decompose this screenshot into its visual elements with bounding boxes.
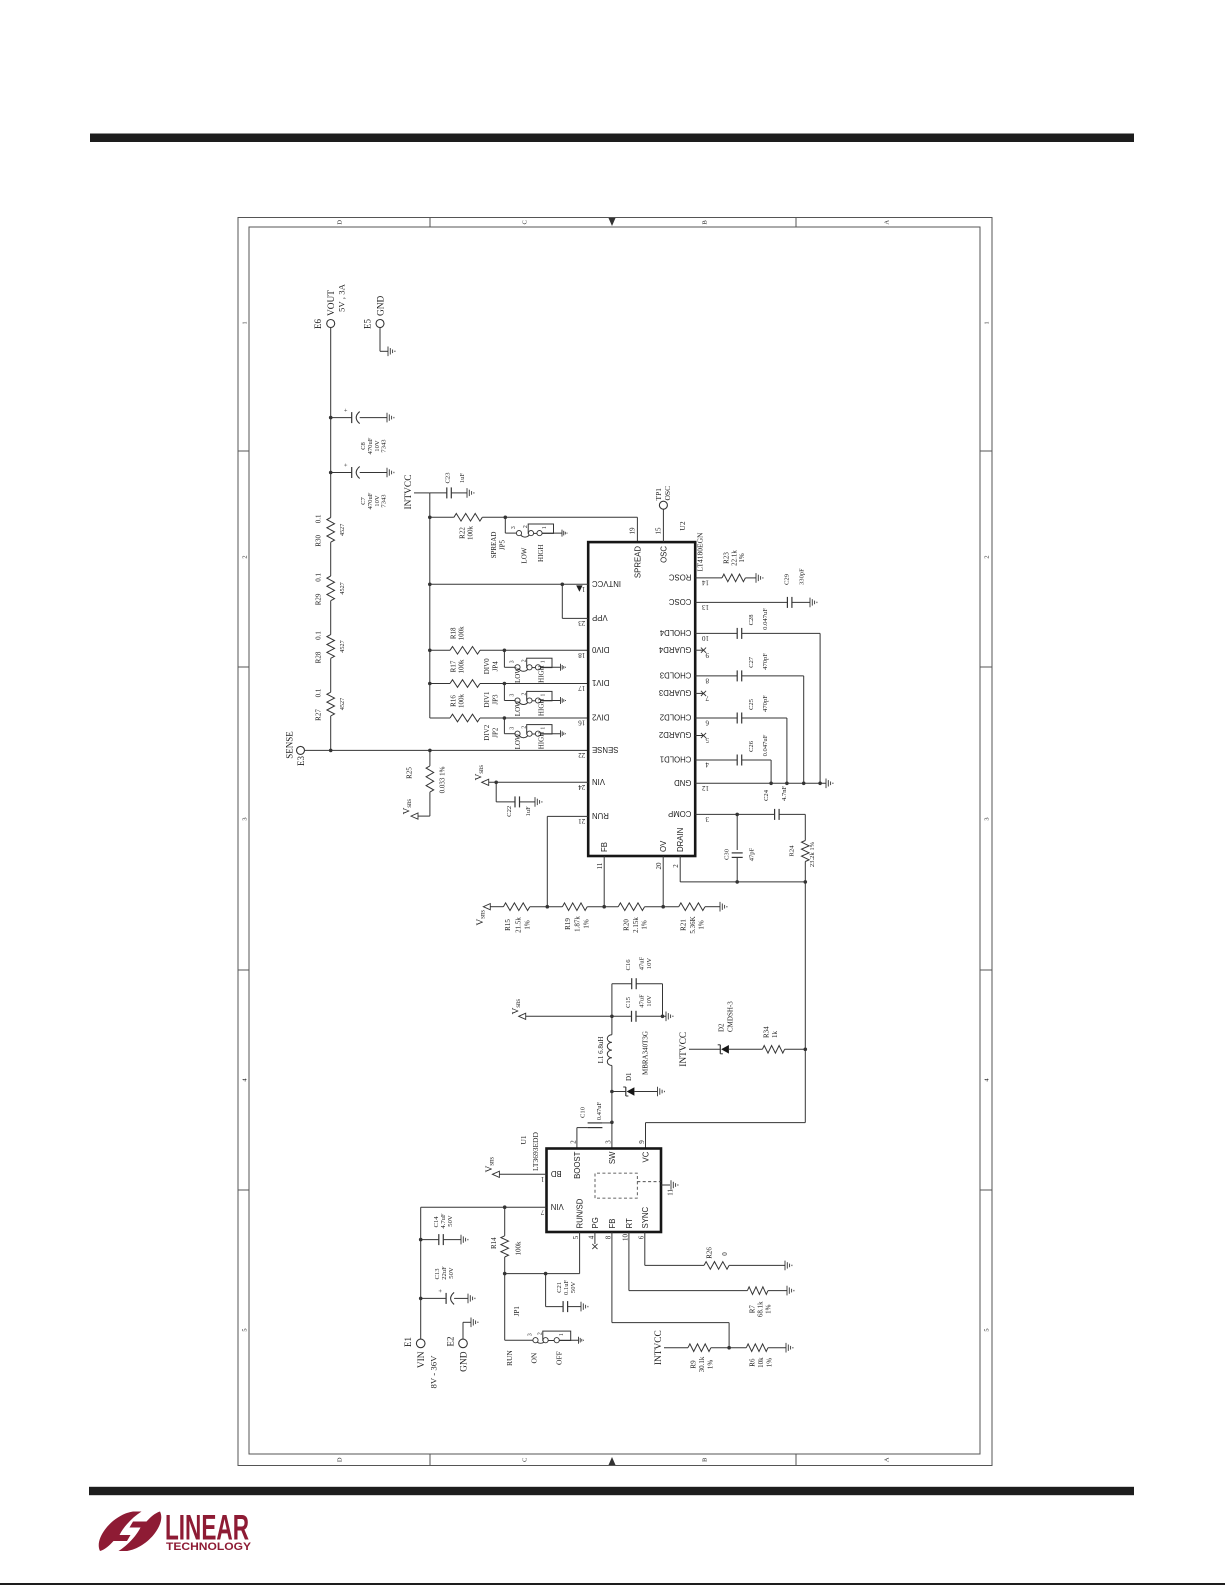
- svg-text:C29: C29: [784, 573, 791, 585]
- svg-text:2: 2: [521, 659, 527, 662]
- svg-text:COMP: COMP: [668, 809, 691, 818]
- svg-text:4.7nF: 4.7nF: [781, 785, 788, 801]
- svg-text:C21: C21: [556, 1282, 563, 1293]
- svg-text:C: C: [522, 1458, 529, 1462]
- svg-text:20: 20: [655, 862, 663, 870]
- svg-text:1: 1: [242, 321, 249, 324]
- svg-text:1: 1: [541, 693, 547, 696]
- svg-text:6: 6: [637, 1235, 645, 1239]
- svg-text:BOOST: BOOST: [573, 1151, 582, 1179]
- svg-text:TP1: TP1: [654, 488, 663, 501]
- svg-text:E3: E3: [296, 756, 306, 766]
- svg-text:BD: BD: [550, 1169, 561, 1178]
- svg-text:C16: C16: [625, 959, 632, 971]
- svg-text:470pF: 470pF: [762, 695, 769, 712]
- svg-text:23: 23: [578, 619, 586, 627]
- svg-text:GUARD4: GUARD4: [658, 645, 691, 654]
- svg-text:2: 2: [242, 555, 249, 558]
- svg-text:6: 6: [705, 719, 709, 727]
- svg-text:7343: 7343: [381, 439, 388, 453]
- svg-text:C30: C30: [724, 848, 731, 860]
- svg-text:B: B: [702, 219, 709, 224]
- svg-text:C7: C7: [360, 496, 367, 504]
- svg-text:0.1: 0.1: [315, 631, 323, 640]
- svg-text:R17: R17: [450, 660, 458, 672]
- svg-text:100k: 100k: [467, 526, 475, 541]
- svg-text:A: A: [884, 1457, 891, 1462]
- svg-text:GUARD3: GUARD3: [659, 688, 692, 697]
- svg-text:5: 5: [572, 1235, 580, 1239]
- svg-text:R14: R14: [490, 1237, 498, 1249]
- svg-text:R23: R23: [723, 552, 731, 564]
- svg-text:C14: C14: [433, 1216, 440, 1228]
- svg-text:RT: RT: [625, 1218, 634, 1228]
- svg-text:2: 2: [523, 525, 529, 528]
- svg-text:R30: R30: [315, 534, 323, 546]
- svg-text:1%: 1%: [697, 920, 705, 930]
- svg-text:100k: 100k: [458, 659, 466, 674]
- svg-text:E5: E5: [362, 319, 372, 329]
- svg-text:3: 3: [705, 815, 709, 823]
- svg-text:R26: R26: [706, 1247, 714, 1259]
- svg-text:5.36K: 5.36K: [689, 916, 697, 933]
- svg-text:0: 0: [721, 1252, 729, 1256]
- svg-text:4: 4: [242, 1078, 249, 1082]
- svg-text:0.1: 0.1: [315, 688, 323, 697]
- svg-text:100k: 100k: [458, 626, 466, 641]
- svg-text:22: 22: [578, 751, 586, 759]
- svg-text:JP3: JP3: [491, 694, 499, 705]
- svg-text:HIGH: HIGH: [537, 544, 545, 562]
- svg-text:R9: R9: [690, 1360, 698, 1369]
- svg-text:47uF: 47uF: [638, 994, 645, 1008]
- svg-text:23.2k 1%: 23.2k 1%: [809, 841, 816, 867]
- svg-text:HIGH: HIGH: [538, 732, 546, 750]
- svg-text:1uF: 1uF: [525, 806, 532, 817]
- svg-text:CHOLD2: CHOLD2: [660, 713, 692, 722]
- svg-text:4527: 4527: [339, 698, 346, 710]
- svg-text:8: 8: [705, 677, 709, 685]
- svg-text:LOW: LOW: [514, 667, 522, 683]
- svg-text:ROSC: ROSC: [669, 573, 692, 582]
- svg-text:R7: R7: [749, 1305, 757, 1314]
- svg-text:2: 2: [537, 1332, 543, 1335]
- svg-text:OSC: OSC: [660, 546, 669, 563]
- svg-text:RUN: RUN: [505, 1350, 514, 1366]
- svg-text:CMDSH-3: CMDSH-3: [727, 1001, 735, 1032]
- svg-text:5: 5: [984, 1328, 991, 1331]
- svg-text:C23: C23: [445, 472, 452, 484]
- svg-text:3: 3: [984, 817, 991, 820]
- svg-text:16: 16: [578, 719, 586, 727]
- svg-text:CHOLD4: CHOLD4: [659, 628, 691, 637]
- svg-text:19: 19: [629, 527, 637, 535]
- svg-text:CHOLD1: CHOLD1: [660, 755, 692, 764]
- svg-text:JP5: JP5: [498, 539, 506, 550]
- svg-text:11: 11: [596, 862, 604, 869]
- svg-text:R15: R15: [504, 919, 512, 931]
- svg-text:SYNC: SYNC: [641, 1206, 650, 1228]
- svg-text:1: 1: [559, 1333, 565, 1336]
- svg-text:Vsns: Vsns: [403, 799, 414, 815]
- svg-text:2: 2: [984, 555, 991, 558]
- svg-text:0.1: 0.1: [315, 514, 323, 523]
- svg-text:L1 6.8uH: L1 6.8uH: [597, 1037, 605, 1064]
- svg-text:50V: 50V: [448, 1267, 455, 1279]
- svg-text:0.033 1%: 0.033 1%: [439, 766, 447, 793]
- svg-text:R34: R34: [763, 1026, 771, 1038]
- svg-text:GND: GND: [377, 295, 387, 316]
- svg-text:12: 12: [702, 784, 710, 792]
- svg-text:D1: D1: [625, 1072, 633, 1081]
- svg-text:C25: C25: [748, 698, 755, 710]
- svg-text:B: B: [702, 1457, 709, 1462]
- svg-text:R6: R6: [749, 1358, 757, 1367]
- svg-text:2: 2: [672, 864, 680, 868]
- svg-text:18: 18: [578, 651, 586, 659]
- svg-text:VPP: VPP: [592, 613, 608, 622]
- svg-text:RUN: RUN: [592, 811, 609, 820]
- svg-text:VIN: VIN: [592, 777, 605, 786]
- svg-text:R21: R21: [680, 919, 688, 931]
- svg-text:INTVCC: INTVCC: [404, 475, 414, 510]
- svg-text:0.47uF: 0.47uF: [596, 1101, 603, 1120]
- svg-text:Vsns: Vsns: [512, 999, 523, 1015]
- svg-text:1: 1: [984, 321, 991, 324]
- svg-text:SPREAD: SPREAD: [634, 546, 643, 578]
- svg-text:1%: 1%: [707, 1360, 715, 1370]
- svg-text:8: 8: [604, 1235, 612, 1239]
- svg-text:U1: U1: [519, 1135, 528, 1144]
- svg-text:ON: ON: [530, 1352, 539, 1363]
- svg-text:1: 1: [542, 526, 548, 529]
- svg-text:1%: 1%: [524, 920, 532, 930]
- svg-text:1%: 1%: [766, 1358, 774, 1368]
- svg-text:5V , 3A: 5V , 3A: [337, 283, 347, 312]
- svg-text:3: 3: [242, 817, 249, 820]
- svg-text:LOW: LOW: [514, 733, 522, 749]
- svg-text:LT4180EGN: LT4180EGN: [696, 532, 705, 571]
- svg-text:D: D: [337, 1457, 344, 1462]
- svg-text:100k: 100k: [515, 1241, 523, 1256]
- svg-text:3: 3: [527, 1333, 533, 1336]
- svg-text:47pF: 47pF: [749, 847, 756, 861]
- svg-text:LOW: LOW: [514, 700, 522, 716]
- svg-text:13: 13: [702, 603, 710, 611]
- svg-text:C10: C10: [580, 1106, 587, 1118]
- svg-text:3: 3: [509, 693, 515, 696]
- svg-text:TECHNOLOGY: TECHNOLOGY: [166, 1541, 252, 1553]
- svg-text:14: 14: [702, 579, 710, 587]
- svg-text:9: 9: [638, 1140, 646, 1144]
- svg-text:GND: GND: [674, 778, 692, 787]
- svg-text:4: 4: [984, 1078, 991, 1082]
- svg-text:R19: R19: [564, 918, 572, 930]
- svg-text:21: 21: [578, 817, 586, 825]
- svg-text:Vsns: Vsns: [485, 1157, 496, 1173]
- svg-text:DIV1: DIV1: [592, 678, 609, 687]
- svg-text:17: 17: [578, 684, 586, 692]
- svg-text:FB: FB: [608, 1219, 617, 1229]
- svg-text:OFF: OFF: [555, 1351, 564, 1365]
- svg-text:Vsns: Vsns: [476, 910, 487, 926]
- svg-text:U2: U2: [678, 521, 687, 530]
- svg-text:10: 10: [621, 1234, 629, 1242]
- svg-text:C8: C8: [360, 441, 367, 449]
- svg-text:OV: OV: [659, 840, 668, 852]
- svg-text:7343: 7343: [381, 494, 388, 508]
- svg-text:INTVCC: INTVCC: [654, 1330, 664, 1365]
- svg-text:JP4: JP4: [491, 661, 499, 672]
- svg-text:30.1k: 30.1k: [698, 1356, 706, 1372]
- svg-text:1%: 1%: [738, 553, 746, 563]
- svg-text:FB: FB: [600, 842, 609, 852]
- svg-text:C28: C28: [748, 614, 755, 626]
- svg-text:SENSE: SENSE: [592, 745, 618, 754]
- svg-text:3: 3: [604, 1140, 612, 1144]
- svg-text:INTVCC: INTVCC: [592, 579, 621, 588]
- svg-text:10: 10: [702, 634, 710, 642]
- svg-text:JP1: JP1: [513, 1306, 521, 1317]
- svg-text:4: 4: [587, 1235, 595, 1239]
- svg-text:330pF: 330pF: [799, 568, 806, 585]
- svg-text:DIV2: DIV2: [592, 713, 609, 722]
- svg-text:A: A: [884, 220, 891, 225]
- svg-text:10V: 10V: [646, 958, 653, 970]
- svg-text:50V: 50V: [447, 1215, 454, 1227]
- svg-text:470pF: 470pF: [762, 653, 769, 670]
- svg-text:LT3693EDD: LT3693EDD: [531, 1132, 540, 1171]
- svg-text:4527: 4527: [339, 640, 346, 652]
- svg-text:R18: R18: [450, 627, 458, 639]
- svg-text:DRAIN: DRAIN: [676, 828, 685, 852]
- svg-text:2.15k: 2.15k: [632, 917, 640, 933]
- svg-text:2: 2: [521, 692, 527, 695]
- svg-text:1%: 1%: [583, 919, 591, 929]
- svg-text:68.1k: 68.1k: [757, 1301, 765, 1317]
- svg-text:10V: 10V: [646, 995, 653, 1007]
- svg-text:R25: R25: [406, 767, 414, 779]
- svg-text:DIV0: DIV0: [483, 658, 491, 674]
- svg-text:3: 3: [509, 660, 515, 663]
- svg-text:4527: 4527: [339, 524, 346, 536]
- svg-text:0.1: 0.1: [315, 573, 323, 582]
- svg-text:HIGH: HIGH: [538, 699, 546, 717]
- svg-text:1%: 1%: [765, 1304, 773, 1314]
- svg-text:SENSE: SENSE: [285, 731, 295, 759]
- svg-text:R29: R29: [315, 593, 323, 605]
- svg-text:10k: 10k: [757, 1357, 765, 1368]
- svg-text:Vsns: Vsns: [475, 765, 486, 781]
- svg-text:1: 1: [540, 1175, 544, 1183]
- svg-text:INTVCC: INTVCC: [679, 1032, 689, 1067]
- svg-text:0.1uF: 0.1uF: [563, 1279, 570, 1295]
- svg-text:R16: R16: [450, 695, 458, 707]
- svg-text:VIN: VIN: [417, 1351, 427, 1368]
- svg-text:R28: R28: [315, 651, 323, 663]
- svg-text:SPREAD: SPREAD: [490, 532, 498, 559]
- svg-text:4.7uF: 4.7uF: [440, 1213, 447, 1229]
- svg-text:GND: GND: [460, 1351, 470, 1372]
- svg-text:4527: 4527: [339, 582, 346, 594]
- svg-text:+: +: [343, 408, 350, 412]
- svg-text:C22: C22: [506, 806, 513, 817]
- svg-text:C: C: [522, 220, 529, 224]
- svg-text:21.5k: 21.5k: [514, 917, 522, 933]
- svg-text:LOW: LOW: [521, 547, 529, 563]
- svg-text:1: 1: [541, 727, 547, 730]
- svg-text:E1: E1: [403, 1337, 413, 1347]
- svg-text:R27: R27: [315, 709, 323, 721]
- svg-text:R24: R24: [788, 845, 795, 857]
- svg-text:11: 11: [667, 1189, 675, 1196]
- svg-text:1%: 1%: [641, 920, 649, 930]
- svg-text:2: 2: [521, 726, 527, 729]
- svg-text:COSC: COSC: [669, 597, 692, 606]
- svg-text:47uF: 47uF: [638, 956, 645, 970]
- svg-text:MBRA340T3G: MBRA340T3G: [642, 1031, 650, 1075]
- svg-text:CHOLD3: CHOLD3: [660, 671, 692, 680]
- svg-text:OSC: OSC: [663, 486, 672, 501]
- svg-text:22uF: 22uF: [441, 1266, 448, 1280]
- svg-text:RUN/SD: RUN/SD: [576, 1198, 585, 1228]
- svg-text:R22: R22: [459, 527, 467, 539]
- svg-text:1: 1: [541, 660, 547, 663]
- svg-text:C27: C27: [748, 656, 755, 668]
- svg-text:DIV1: DIV1: [483, 691, 491, 707]
- svg-text:SW: SW: [608, 1151, 617, 1164]
- svg-text:C15: C15: [625, 996, 632, 1008]
- svg-text:PG: PG: [591, 1217, 600, 1228]
- svg-text:4: 4: [705, 761, 709, 769]
- svg-text:HIGH: HIGH: [538, 665, 546, 683]
- svg-text:D2: D2: [718, 1023, 726, 1032]
- svg-text:100k: 100k: [458, 694, 466, 709]
- svg-text:+: +: [438, 1289, 445, 1293]
- svg-text:5: 5: [242, 1328, 249, 1331]
- svg-text:1.87k: 1.87k: [573, 916, 581, 932]
- svg-text:JP2: JP2: [491, 727, 499, 738]
- svg-text:15: 15: [655, 527, 663, 535]
- svg-text:2: 2: [569, 1140, 577, 1144]
- svg-text:VC: VC: [642, 1151, 651, 1162]
- svg-text:1k: 1k: [771, 1031, 779, 1039]
- svg-text:+: +: [343, 463, 350, 467]
- svg-text:C24: C24: [763, 789, 770, 801]
- svg-text:VIN: VIN: [551, 1202, 564, 1211]
- svg-text:C13: C13: [434, 1268, 441, 1280]
- svg-text:GUARD2: GUARD2: [659, 730, 692, 739]
- svg-text:E6: E6: [313, 319, 323, 329]
- svg-text:0.047uF: 0.047uF: [762, 734, 769, 756]
- svg-text:24: 24: [578, 783, 586, 791]
- svg-text:7: 7: [540, 1208, 544, 1216]
- svg-text:R20: R20: [622, 919, 630, 931]
- svg-text:D: D: [337, 220, 344, 225]
- svg-text:DIV2: DIV2: [483, 724, 491, 740]
- svg-text:1uF: 1uF: [459, 473, 466, 484]
- svg-text:8V - 36V: 8V - 36V: [429, 1355, 439, 1389]
- svg-text:DIV0: DIV0: [591, 645, 609, 654]
- svg-text:3: 3: [509, 727, 515, 730]
- svg-text:0.047uF: 0.047uF: [762, 608, 769, 630]
- svg-text:C26: C26: [748, 740, 755, 752]
- svg-text:3: 3: [511, 526, 517, 529]
- svg-text:E2: E2: [445, 1337, 455, 1347]
- svg-text:50V: 50V: [570, 1281, 577, 1293]
